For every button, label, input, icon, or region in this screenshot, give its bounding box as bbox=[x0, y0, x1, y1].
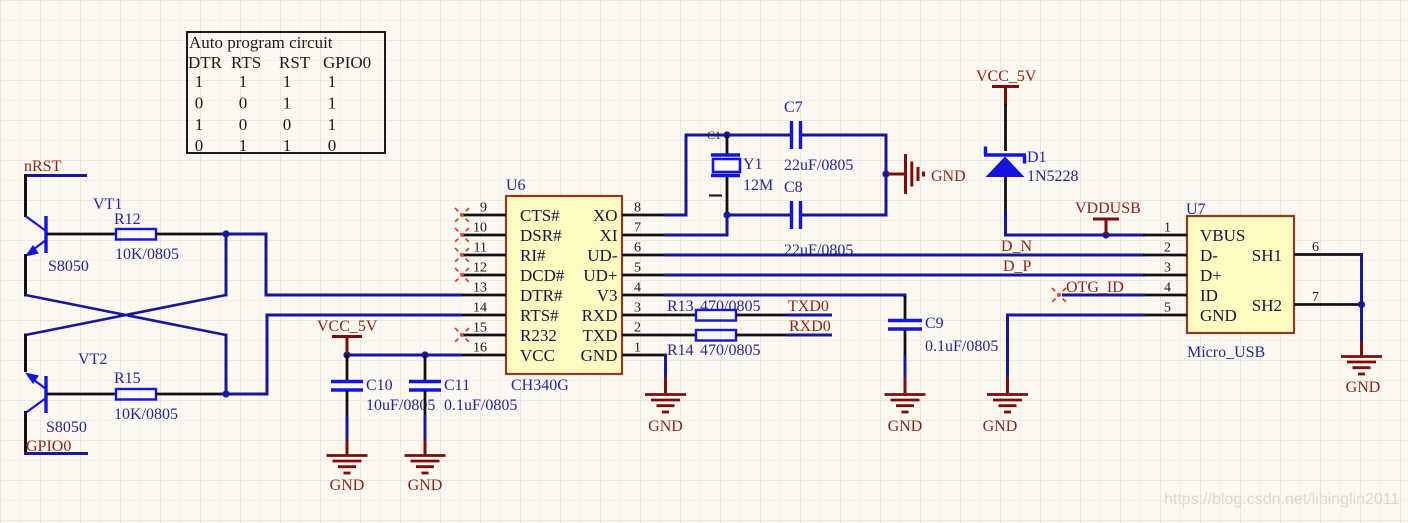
wire VCC rail to U6 pin16 bbox=[347, 354, 462, 357]
svg-text:7: 7 bbox=[634, 221, 641, 236]
svg-text:GND: GND bbox=[1346, 379, 1381, 396]
wire R15 right lead bbox=[156, 393, 222, 396]
wire VT1 base to R12 bbox=[47, 233, 116, 236]
svg-text:12M: 12M bbox=[743, 177, 773, 194]
ground (C10) bbox=[327, 456, 368, 474]
svg-text:RTS: RTS bbox=[231, 53, 261, 72]
svg-text:1: 1 bbox=[1164, 221, 1171, 236]
svg-text:GPIO0: GPIO0 bbox=[323, 53, 371, 72]
svg-text:10K/0805: 10K/0805 bbox=[115, 246, 179, 263]
wire RXD0 net bbox=[787, 334, 832, 337]
pin 12 stub (U6 DCD#) bbox=[462, 274, 506, 277]
svg-text:VCC_5V: VCC_5V bbox=[317, 318, 378, 335]
IC U6 CH340G body bbox=[506, 196, 622, 374]
svg-text:S8050: S8050 bbox=[46, 419, 87, 436]
svg-text:SH2: SH2 bbox=[1252, 296, 1282, 315]
wire shield ground stub bbox=[1360, 341, 1363, 356]
svg-text:Y1: Y1 bbox=[743, 156, 763, 173]
wire C10 to ground bbox=[346, 415, 349, 440]
capacitor C8 bbox=[792, 201, 801, 229]
wire crystal bottom lead bbox=[726, 177, 729, 216]
wire UD- (D_N) run bbox=[664, 254, 1145, 257]
svg-text:GND: GND bbox=[1200, 306, 1237, 325]
svg-text:0.1uF/0805: 0.1uF/0805 bbox=[444, 397, 517, 414]
svg-text:0: 0 bbox=[195, 136, 204, 155]
svg-text:DSR#: DSR# bbox=[520, 226, 562, 245]
pin 16 stub (U6 VCC) bbox=[462, 354, 506, 357]
junction R15 node bbox=[222, 390, 229, 397]
svg-text:1N5228: 1N5228 bbox=[1027, 168, 1079, 185]
capacitor C7 bbox=[792, 121, 801, 149]
pin 6 stub (U6 UD-) bbox=[622, 254, 666, 257]
power VCC_5V (top right) bbox=[992, 87, 1019, 107]
capacitor C9 bbox=[888, 321, 922, 330]
junction shield node bbox=[1358, 301, 1365, 308]
wire cross diagonal (R12 node to VT2 emitter) bbox=[26, 295, 227, 335]
pin 9 stub (U6 CTS#) bbox=[462, 214, 506, 217]
svg-text:15: 15 bbox=[473, 321, 487, 336]
svg-text:D_P: D_P bbox=[1003, 258, 1032, 275]
pin 8 stub (U6 XO) bbox=[622, 214, 666, 217]
resistor R12 bbox=[116, 229, 156, 240]
svg-text:https://blog.csdn.net/libingli: https://blog.csdn.net/libinglin2011 bbox=[1164, 491, 1400, 508]
pin 5 stub (U6 UD+) bbox=[622, 274, 666, 277]
svg-text:RXD: RXD bbox=[582, 306, 618, 325]
wire U7 pin5 to ground bbox=[1008, 315, 1146, 378]
svg-text:V3: V3 bbox=[597, 286, 618, 305]
svg-text:GND: GND bbox=[888, 418, 923, 435]
diode D1 1N5228 (zener) bbox=[984, 147, 1026, 178]
svg-text:UD-: UD- bbox=[587, 246, 618, 265]
svg-text:VBUS: VBUS bbox=[1200, 226, 1245, 245]
junction VCC node bbox=[343, 351, 350, 358]
wire C10 top lead bbox=[346, 355, 349, 381]
svg-text:GND: GND bbox=[931, 168, 966, 185]
svg-text:5: 5 bbox=[634, 261, 641, 276]
pin 3 stub (U6 RXD) bbox=[622, 314, 666, 317]
svg-text:R15: R15 bbox=[114, 370, 141, 387]
svg-text:0: 0 bbox=[239, 94, 248, 113]
pin 2 stub (U6 TXD) bbox=[622, 334, 666, 337]
wire U7 gnd stub bbox=[1006, 377, 1009, 393]
wire R13 right lead bbox=[736, 314, 789, 317]
svg-text:1: 1 bbox=[283, 72, 292, 91]
wire C11 to ground bbox=[424, 415, 427, 440]
junction crystal top node bbox=[723, 131, 730, 138]
svg-text:0: 0 bbox=[328, 136, 337, 155]
pin 2 stub (U7 D-) bbox=[1143, 254, 1187, 257]
crystal Y1 12M bbox=[711, 155, 740, 176]
wire VT2 collector vertical bbox=[24, 411, 27, 453]
svg-text:4: 4 bbox=[1164, 281, 1171, 296]
pin 5 stub (U7 GND) bbox=[1143, 314, 1187, 317]
wire C11 bottom lead bbox=[424, 391, 427, 416]
svg-text:2: 2 bbox=[634, 321, 641, 336]
svg-text:0.1uF/0805: 0.1uF/0805 bbox=[925, 338, 998, 355]
wire U6 pin1 to ground bbox=[664, 355, 666, 378]
connector U7 Micro_USB body bbox=[1187, 216, 1294, 333]
wire C9 bottom lead bbox=[904, 330, 907, 356]
pin 13 stub (U6 DTR#) bbox=[462, 294, 506, 297]
wire shield to ground bbox=[1360, 253, 1363, 342]
svg-text:RTS#: RTS# bbox=[520, 306, 559, 325]
svg-text:D_N: D_N bbox=[1001, 238, 1033, 255]
no-connect marker on U6 pin at y=335 bbox=[455, 328, 469, 342]
pin 4 stub (U7 ID) bbox=[1143, 294, 1187, 297]
wire VT1 emitter vertical bbox=[24, 254, 27, 297]
crystal pin mark bbox=[709, 194, 722, 196]
ground (crystal caps) bbox=[888, 154, 924, 194]
svg-text:1: 1 bbox=[239, 136, 248, 155]
svg-text:12: 12 bbox=[473, 261, 487, 276]
svg-text:C11: C11 bbox=[444, 377, 470, 394]
pin 6 stub (U7 SH1) bbox=[1294, 253, 1362, 256]
svg-text:OTG_ID: OTG_ID bbox=[1066, 279, 1124, 296]
svg-text:GND: GND bbox=[330, 477, 365, 494]
svg-text:DTR: DTR bbox=[188, 53, 223, 72]
wire UD+ (D_P) run bbox=[664, 274, 1145, 277]
ground (U7 shield) bbox=[1341, 357, 1382, 375]
svg-text:TXD0: TXD0 bbox=[788, 298, 829, 315]
transistor VT2 S8050 bbox=[25, 373, 46, 414]
svg-text:UD+: UD+ bbox=[583, 266, 617, 285]
svg-text:1: 1 bbox=[634, 341, 641, 356]
svg-text:U7: U7 bbox=[1186, 201, 1206, 218]
wire VT2 base to R15 bbox=[47, 393, 116, 396]
svg-text:10: 10 bbox=[473, 221, 487, 236]
resistor R14 bbox=[696, 330, 736, 341]
svg-text:C10: C10 bbox=[366, 377, 393, 394]
wire R12 right lead bbox=[156, 233, 222, 236]
svg-text:6: 6 bbox=[1312, 240, 1319, 255]
power VDDUSB bbox=[1093, 219, 1119, 235]
svg-text:11: 11 bbox=[474, 241, 487, 256]
wire C11 top lead bbox=[424, 355, 427, 381]
wire V3 to C9 bbox=[664, 295, 905, 298]
wire R12 node horizontal bbox=[220, 233, 266, 236]
wire R15 node horizontal bbox=[220, 393, 267, 396]
svg-text:470/0805: 470/0805 bbox=[700, 298, 760, 315]
svg-text:DTR#: DTR# bbox=[520, 286, 563, 305]
svg-text:C9: C9 bbox=[925, 315, 944, 332]
junction R12 node bbox=[222, 230, 229, 237]
svg-text:VT2: VT2 bbox=[78, 351, 107, 368]
svg-text:D1: D1 bbox=[1027, 149, 1047, 166]
ground (C11) bbox=[405, 456, 446, 474]
pin 14 stub (U6 RTS#) bbox=[462, 314, 506, 317]
svg-text:R13: R13 bbox=[667, 298, 694, 315]
wire crystal top lead bbox=[726, 135, 729, 154]
wire RTS# run to U6 pin14 bbox=[267, 315, 462, 396]
wire VT2 emitter vertical bbox=[24, 334, 27, 373]
wire ground riser bbox=[885, 134, 888, 217]
svg-text:1: 1 bbox=[328, 94, 337, 113]
wire C10 bottom lead bbox=[346, 391, 349, 416]
svg-text:9: 9 bbox=[480, 201, 487, 216]
wire XO to crystal top rail bbox=[664, 135, 790, 215]
pin 7 stub (U6 XI) bbox=[622, 234, 666, 237]
junction VDDUSB tap bbox=[1102, 231, 1109, 238]
junction crystal bottom node (XI) bbox=[723, 211, 730, 218]
svg-text:VCC_5V: VCC_5V bbox=[976, 68, 1037, 85]
svg-text:RI#: RI# bbox=[520, 246, 546, 265]
svg-text:RXD0: RXD0 bbox=[789, 318, 831, 335]
svg-text:1: 1 bbox=[328, 115, 337, 134]
pin 15 stub (U6 R232) bbox=[462, 334, 506, 337]
svg-text:Micro_USB: Micro_USB bbox=[1187, 344, 1265, 361]
svg-text:D-: D- bbox=[1200, 246, 1218, 265]
wire U6 pin3 to R13 bbox=[664, 314, 696, 317]
pin 11 stub (U6 RI#) bbox=[462, 254, 506, 257]
junction C11 node bbox=[421, 351, 428, 358]
svg-text:3: 3 bbox=[634, 301, 641, 316]
wire R12 node down bbox=[225, 234, 228, 297]
svg-text:C8: C8 bbox=[784, 179, 803, 196]
no-connect marker on U6 pin at y=275 bbox=[455, 268, 469, 282]
svg-text:Auto program circuit: Auto program circuit bbox=[189, 33, 333, 52]
wire C9 ground stub bbox=[904, 377, 907, 393]
wire D1 anode lead bbox=[1004, 177, 1007, 212]
wire C10 ground stub bbox=[346, 439, 349, 455]
svg-text:1: 1 bbox=[195, 115, 204, 134]
wire C11 ground stub bbox=[424, 439, 427, 455]
ground (U6 pin1) bbox=[645, 395, 686, 413]
svg-text:14: 14 bbox=[473, 301, 487, 316]
capacitor C11 bbox=[409, 382, 441, 391]
svg-text:3: 3 bbox=[1164, 261, 1171, 276]
no-connect marker on U6 pin at y=215 bbox=[455, 208, 469, 222]
wire D1 to U7 pin1 (VBUS) bbox=[1006, 210, 1146, 235]
wire XI to crystal bottom bbox=[664, 213, 727, 235]
svg-text:CTS#: CTS# bbox=[520, 206, 560, 225]
no-connect marker on U6 pin at y=235 bbox=[455, 228, 469, 242]
svg-text:6: 6 bbox=[634, 241, 641, 256]
svg-text:U6: U6 bbox=[506, 177, 526, 194]
wire R15 node up bbox=[225, 334, 228, 395]
svg-text:nRST: nRST bbox=[24, 158, 62, 175]
svg-text:1: 1 bbox=[328, 72, 337, 91]
wire C9 to ground bbox=[904, 355, 907, 378]
pin 4 stub (U6 V3) bbox=[622, 294, 666, 297]
transistor VT1 S8050 bbox=[25, 216, 46, 257]
wire GPIO0 stub bbox=[24, 452, 88, 455]
pin 10 stub (U6 DSR#) bbox=[462, 234, 506, 237]
pin 1 stub (U6 GND) bbox=[622, 354, 666, 357]
svg-text:1: 1 bbox=[195, 72, 204, 91]
svg-text:2: 2 bbox=[1164, 241, 1171, 256]
svg-text:1: 1 bbox=[283, 94, 292, 113]
svg-text:16: 16 bbox=[473, 341, 487, 356]
svg-text:RST: RST bbox=[279, 53, 311, 72]
svg-text:D+: D+ bbox=[1200, 266, 1222, 285]
svg-text:TXD: TXD bbox=[583, 326, 618, 345]
svg-text:CH340G: CH340G bbox=[511, 377, 569, 394]
svg-text:10K/0805: 10K/0805 bbox=[114, 406, 178, 423]
svg-text:7: 7 bbox=[1312, 290, 1319, 305]
svg-text:XO: XO bbox=[593, 206, 618, 225]
svg-text:GND: GND bbox=[983, 418, 1018, 435]
resistor R15 bbox=[116, 389, 156, 400]
svg-text:1: 1 bbox=[239, 72, 248, 91]
svg-text:4: 4 bbox=[634, 281, 641, 296]
svg-text:470/0805: 470/0805 bbox=[700, 342, 760, 359]
svg-text:VCC: VCC bbox=[520, 346, 555, 365]
pin 3 stub (U7 D+) bbox=[1143, 274, 1187, 277]
wire OTG_ID net bbox=[1062, 294, 1145, 297]
pin 1 stub (U7 VBUS) bbox=[1143, 234, 1187, 237]
svg-text:GND: GND bbox=[581, 346, 618, 365]
wire nRST stub bbox=[24, 174, 87, 177]
wire nRST vertical bbox=[24, 174, 27, 217]
svg-text:ID: ID bbox=[1200, 286, 1218, 305]
svg-text:0: 0 bbox=[195, 94, 204, 113]
svg-text:0: 0 bbox=[239, 115, 248, 134]
svg-text:5: 5 bbox=[1164, 301, 1171, 316]
svg-text:VDDUSB: VDDUSB bbox=[1075, 200, 1141, 217]
svg-text:S8050: S8050 bbox=[48, 258, 89, 275]
svg-text:8: 8 bbox=[634, 201, 641, 216]
resistor R13 bbox=[696, 310, 736, 321]
wire C8 right to riser bbox=[802, 214, 886, 217]
wire C9 top lead bbox=[904, 296, 907, 320]
ground (U7 pin5) bbox=[987, 395, 1028, 413]
wire R14 right lead bbox=[736, 334, 789, 337]
svg-text:22uF/0805: 22uF/0805 bbox=[784, 157, 853, 174]
svg-text:R232: R232 bbox=[520, 326, 557, 345]
wire C7 right to riser bbox=[802, 134, 886, 137]
svg-text:13: 13 bbox=[473, 281, 487, 296]
ground (C9) bbox=[885, 395, 926, 413]
wire U6 pin2 to R14 bbox=[664, 334, 696, 337]
wire U6 pin1 ground stub bbox=[664, 377, 667, 393]
svg-text:SH1: SH1 bbox=[1252, 246, 1282, 265]
pin 7 stub (U7 SH2) bbox=[1294, 303, 1362, 306]
note: auto program truth table box bbox=[187, 32, 385, 153]
wire cross diagonal (VT1 emitter to R15 node) bbox=[26, 295, 227, 335]
junction ground tap bbox=[882, 170, 889, 177]
wire TXD0 net bbox=[787, 314, 832, 317]
wire crystal bottom to C8 bbox=[727, 214, 790, 217]
wire VCC_5V to D1 bbox=[1004, 104, 1007, 151]
svg-text:1: 1 bbox=[283, 136, 292, 155]
svg-text:GND: GND bbox=[408, 477, 443, 494]
svg-text:0: 0 bbox=[283, 115, 292, 134]
svg-text:R12: R12 bbox=[114, 211, 141, 228]
svg-text:R14: R14 bbox=[667, 342, 694, 359]
no-connect marker OTG_ID bbox=[1052, 288, 1066, 302]
wire DTR# run to U6 pin13 bbox=[266, 233, 462, 296]
no-connect marker on U6 pin at y=255 bbox=[455, 248, 469, 262]
power VCC_5V (left) bbox=[332, 337, 362, 355]
capacitor C10 bbox=[331, 382, 363, 391]
svg-text:GND: GND bbox=[648, 418, 683, 435]
svg-text:XI: XI bbox=[600, 226, 618, 245]
svg-text:C7: C7 bbox=[784, 99, 803, 116]
svg-text:DCD#: DCD# bbox=[520, 266, 565, 285]
